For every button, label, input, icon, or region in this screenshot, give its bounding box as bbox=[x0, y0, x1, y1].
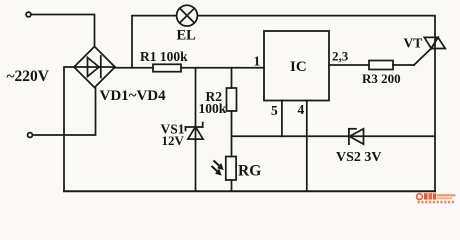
svg-text:VT: VT bbox=[404, 36, 423, 51]
svg-text:R1 100k: R1 100k bbox=[140, 49, 188, 64]
svg-text:2,3: 2,3 bbox=[332, 48, 349, 63]
svg-text:VD1~VD4: VD1~VD4 bbox=[100, 88, 167, 104]
svg-text:12V: 12V bbox=[162, 133, 185, 148]
svg-text:EL: EL bbox=[177, 27, 197, 43]
svg-text:4: 4 bbox=[298, 102, 305, 117]
svg-text:5: 5 bbox=[271, 103, 278, 118]
svg-text:100k: 100k bbox=[199, 101, 227, 116]
svg-text:~220V: ~220V bbox=[7, 68, 50, 85]
svg-text:1: 1 bbox=[254, 54, 261, 69]
svg-text:RG: RG bbox=[238, 163, 261, 180]
svg-text:IC: IC bbox=[290, 59, 307, 75]
svg-text:R3 200: R3 200 bbox=[362, 71, 401, 86]
svg-text:VS2 3V: VS2 3V bbox=[336, 150, 382, 165]
